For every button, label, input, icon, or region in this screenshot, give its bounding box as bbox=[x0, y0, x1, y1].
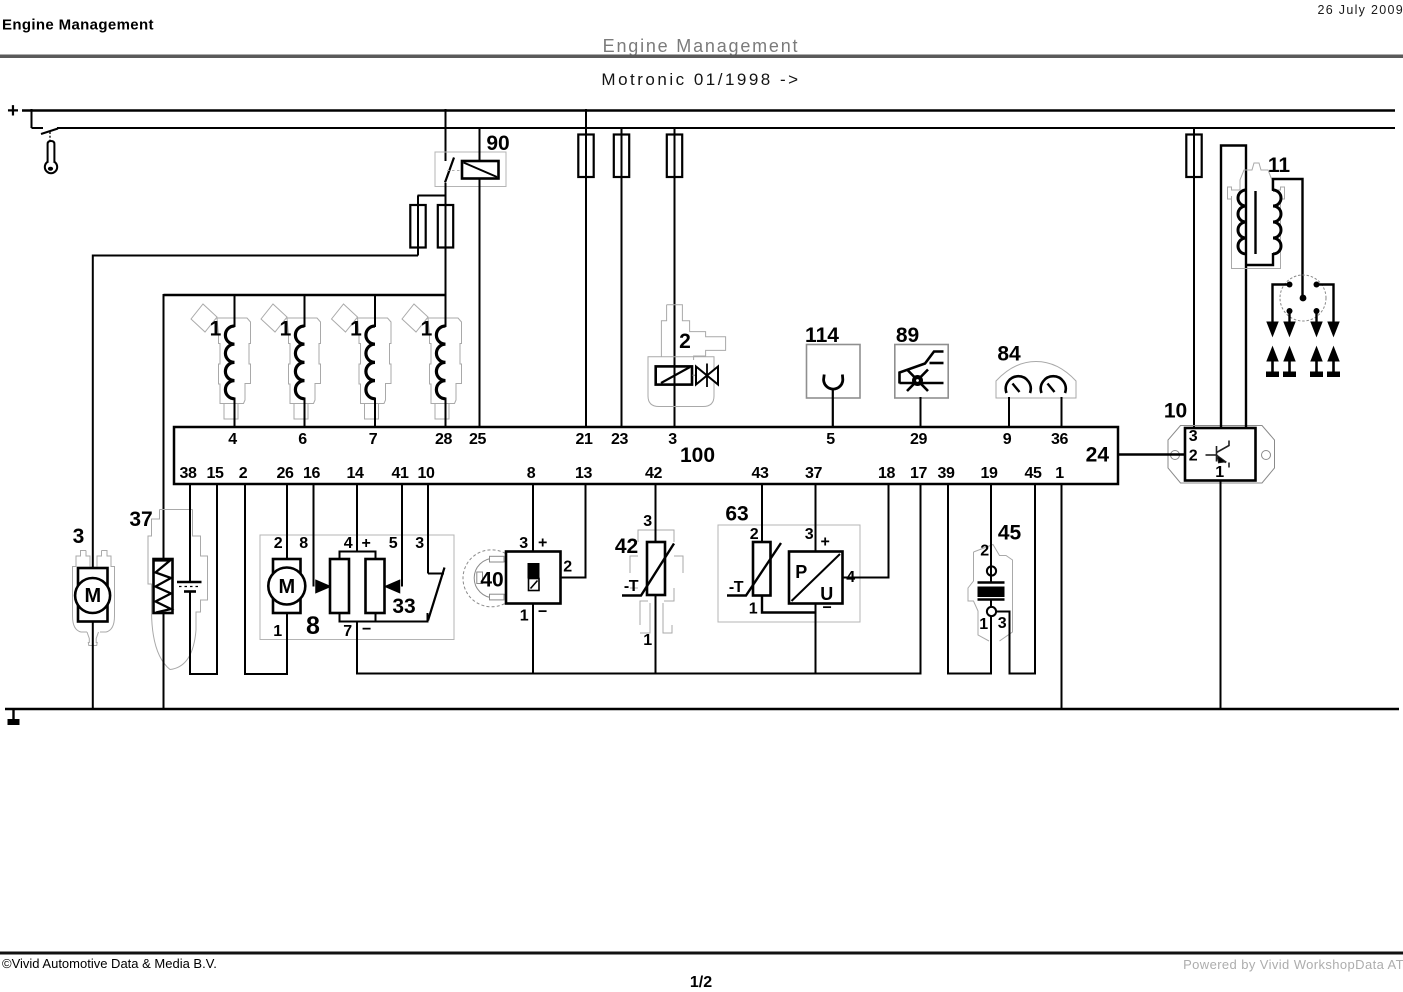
lambda sensor 37 body outline bbox=[148, 510, 208, 670]
svg-text:M: M bbox=[84, 585, 101, 607]
ignition module 10 transistor bbox=[1206, 441, 1230, 468]
crank sensor 40 box bbox=[506, 552, 561, 604]
svg-text:-T: -T bbox=[624, 578, 639, 595]
relay 90 link (dashed) bbox=[447, 170, 462, 172]
wire drop to ignition switch bbox=[31, 109, 33, 128]
sensor 63 P/U transducer bbox=[789, 552, 843, 604]
svg-text:63: 63 bbox=[725, 503, 748, 526]
wire ECU pin 42 to sensor 42 bbox=[655, 484, 657, 543]
wire +30 to fuse to ECU pin 21 bbox=[585, 109, 587, 427]
svg-text:1: 1 bbox=[210, 318, 222, 341]
svg-text:84: 84 bbox=[997, 343, 1021, 366]
svg-text:+: + bbox=[538, 535, 547, 552]
ignition coil 11 body outline bbox=[1228, 163, 1285, 269]
wire injector 2 to ECU bbox=[304, 398, 306, 428]
wire to fuel pump fuse bbox=[417, 196, 419, 256]
svg-text:8: 8 bbox=[306, 612, 320, 640]
wire sensor 40 to sensor-ground bus bbox=[532, 604, 534, 675]
wire 114 to ECU pin 5 bbox=[832, 389, 834, 428]
svg-text:1: 1 bbox=[749, 601, 758, 618]
wire sensor 63 pin 4 to ECU pin 18 bbox=[843, 484, 889, 578]
svg-text:3: 3 bbox=[998, 615, 1007, 632]
wire track bottom bridge bbox=[340, 613, 428, 622]
wire +15 to fuse to ECU pin 23 bbox=[621, 127, 623, 427]
svg-text:6: 6 bbox=[298, 431, 307, 448]
wire sensor 40 pin 2 to ECU pin 13 bbox=[561, 484, 586, 578]
lambda sensor 37 cell (battery symbol) bbox=[177, 581, 202, 584]
svg-text:100: 100 bbox=[680, 444, 715, 467]
potentiometer track right bbox=[366, 559, 385, 613]
injector 1 (cyl 1) body outline bbox=[191, 304, 251, 419]
wire lambda cell to ECU pin 38 bbox=[189, 484, 191, 582]
wire bus +30 (battery) bbox=[22, 109, 1395, 112]
wire ECU pin 8 to sensor 40 bbox=[532, 484, 534, 552]
wire bus +15 (ignition switched) bbox=[57, 127, 1395, 129]
ground rail bbox=[5, 708, 1399, 711]
wire distributor to spark plug 2 bbox=[1288, 311, 1290, 323]
wire sensor-ground bus to ECU pin 17 bbox=[357, 484, 921, 674]
injector 1 (cyl 2) coil bbox=[295, 326, 304, 399]
wire module 10 to coil 11 primary bbox=[1221, 146, 1246, 429]
wire ECU pin 24 to module 10 pin 2 bbox=[1118, 453, 1185, 456]
svg-text:+: + bbox=[362, 535, 371, 552]
coil 11 primary winding bbox=[1238, 190, 1246, 254]
svg-text:28: 28 bbox=[435, 431, 452, 448]
svg-text:1: 1 bbox=[350, 318, 362, 341]
svg-text:3: 3 bbox=[805, 526, 814, 543]
wire distributor to spark plug 4 bbox=[1317, 285, 1334, 323]
air temp sensor 42 outline bbox=[630, 530, 683, 633]
svg-text:9: 9 bbox=[1003, 431, 1012, 448]
svg-text:89: 89 bbox=[896, 324, 919, 347]
svg-text:114: 114 bbox=[805, 324, 839, 347]
svg-text:1/2: 1/2 bbox=[690, 974, 712, 991]
coil 11 secondary winding bbox=[1273, 190, 1281, 254]
wire ECU pin 14 to track tops bbox=[356, 484, 358, 552]
wire ECU pin 26 to idle motor bbox=[286, 484, 288, 560]
svg-text:13: 13 bbox=[575, 465, 592, 482]
crank sensor 40 outline bbox=[463, 550, 520, 607]
component 89 car icon bbox=[900, 352, 944, 392]
sensor 63 NTC resistor bbox=[753, 542, 771, 596]
svg-text:45: 45 bbox=[1025, 465, 1042, 482]
relay 90 coil diagonal bbox=[464, 163, 498, 178]
wire relay 90 coil to ECU pin 25 bbox=[479, 127, 481, 427]
wire relay output bbox=[445, 183, 447, 196]
wire suppressor 45 pin 3 to ECU pin 45 bbox=[996, 484, 1035, 674]
svg-text:3: 3 bbox=[415, 535, 424, 552]
svg-text:P: P bbox=[795, 562, 807, 582]
fuse F (pin 3) bbox=[667, 135, 682, 178]
component 89 box bbox=[895, 345, 948, 399]
ignition module 10 flange outline bbox=[1168, 426, 1275, 484]
svg-text:38: 38 bbox=[180, 465, 197, 482]
wire tracks to sensor-ground bus bbox=[356, 622, 358, 675]
header rule bbox=[0, 55, 1403, 59]
fuse (injector rail) bbox=[438, 205, 453, 248]
svg-text:Motronic 01/1998 ->: Motronic 01/1998 -> bbox=[601, 70, 800, 89]
svg-text:42: 42 bbox=[615, 535, 638, 558]
lambda heater zigzag bbox=[155, 561, 172, 613]
svg-text:4: 4 bbox=[228, 431, 237, 448]
svg-text:4: 4 bbox=[344, 535, 353, 552]
ECU 100 box bbox=[174, 427, 1118, 484]
svg-text:3: 3 bbox=[643, 513, 652, 530]
purge valve 2 body outline bbox=[648, 305, 726, 407]
svg-text:1: 1 bbox=[979, 616, 988, 633]
injector 1 (cyl 3) body outline bbox=[332, 304, 392, 419]
fuse F (pin 23) bbox=[614, 135, 629, 178]
suppressor 45 outline bbox=[968, 545, 1013, 642]
wire sensor 63 to sensor-ground bus bbox=[815, 604, 817, 675]
injector 1 (cyl 1) coil bbox=[225, 326, 234, 399]
wire rail to injector 3 bbox=[374, 294, 376, 327]
svg-text:Engine Management: Engine Management bbox=[2, 17, 154, 34]
svg-text:1: 1 bbox=[421, 318, 433, 341]
svg-text:3: 3 bbox=[1189, 428, 1198, 445]
wire fuel pump 3 to ground bbox=[92, 622, 94, 711]
svg-text:17: 17 bbox=[910, 465, 927, 482]
wire +30 to relay 90 switch bbox=[445, 109, 447, 161]
svg-text:3: 3 bbox=[73, 525, 85, 548]
wire lambda cell return to ECU pin 15 bbox=[190, 484, 217, 674]
wire ECU pin 10 to throttle switch bbox=[427, 484, 429, 574]
svg-text:16: 16 bbox=[303, 465, 320, 482]
svg-text:14: 14 bbox=[347, 465, 364, 482]
svg-text:8: 8 bbox=[527, 465, 536, 482]
svg-text:1: 1 bbox=[280, 318, 292, 341]
sensor 42 NTC resistor bbox=[647, 542, 665, 595]
wire suppressor 45 pin 1 to ECU pin 39 bbox=[948, 484, 991, 674]
spark gap at x=1272.5 bbox=[1267, 322, 1278, 336]
relay 90 coil bbox=[462, 161, 499, 179]
ground symbol bbox=[12, 709, 14, 719]
wire injector 3 to ECU bbox=[374, 398, 376, 428]
throttle switch blade bbox=[428, 568, 445, 621]
svg-text:2: 2 bbox=[1189, 448, 1198, 465]
svg-text:40: 40 bbox=[480, 569, 503, 592]
svg-text:-T: -T bbox=[729, 579, 744, 596]
potentiometer track left bbox=[330, 559, 349, 613]
svg-text:18: 18 bbox=[878, 465, 895, 482]
svg-text:25: 25 bbox=[469, 431, 486, 448]
instrument cluster 84 left gauge bbox=[1006, 376, 1031, 393]
svg-text:Powered by Vivid WorkshopData: Powered by Vivid WorkshopData ATI bbox=[1183, 957, 1403, 972]
svg-text:11: 11 bbox=[1268, 154, 1291, 177]
wire ECU pin 43 to sensor 63 NTC bbox=[761, 484, 763, 543]
svg-text:23: 23 bbox=[611, 431, 628, 448]
svg-text:3: 3 bbox=[668, 431, 677, 448]
svg-text:2: 2 bbox=[239, 465, 248, 482]
ignition key link (dashed) bbox=[49, 132, 51, 142]
svg-text:+: + bbox=[821, 534, 830, 551]
svg-text:1: 1 bbox=[643, 632, 652, 649]
wiper arrow left potentiometer bbox=[316, 581, 330, 593]
MAP sensor 63 outline box bbox=[718, 525, 860, 622]
injector 1 (cyl 2) body outline bbox=[261, 304, 321, 419]
wire ECU pin 19 to suppressor 45 bbox=[990, 484, 992, 567]
spark gap at x=1333.5 bbox=[1328, 322, 1339, 336]
instrument cluster 84 body outline bbox=[996, 362, 1076, 399]
wire track top bridge bbox=[340, 552, 376, 560]
component 114 symbol bbox=[824, 375, 843, 390]
instrument cluster 84 right gauge bbox=[1041, 376, 1066, 393]
suppressor 45 capacitor bbox=[978, 581, 1005, 584]
svg-text:1: 1 bbox=[520, 608, 529, 625]
fuel pump 3 motor bbox=[75, 578, 110, 613]
wire injector 1 to ECU bbox=[234, 398, 236, 428]
wire coil 11 secondary to distributor bbox=[1273, 179, 1303, 296]
wire module 10 pin 1 to ground rail bbox=[1220, 481, 1222, 711]
svg-text:24: 24 bbox=[1086, 444, 1110, 467]
wire rail to injector 1 bbox=[234, 294, 236, 327]
spark gap at x=1289.5 bbox=[1284, 322, 1295, 336]
svg-text:33: 33 bbox=[392, 595, 415, 618]
svg-text:Engine Management: Engine Management bbox=[603, 36, 800, 56]
svg-text:43: 43 bbox=[752, 465, 769, 482]
wire to injector-rail fuse bbox=[445, 196, 447, 297]
svg-text:2: 2 bbox=[274, 535, 283, 552]
wire injector 4 to ECU bbox=[445, 398, 447, 428]
crank sensor 40 element bbox=[528, 563, 540, 579]
svg-text:2: 2 bbox=[980, 543, 989, 560]
injector 1 (cyl 3) coil bbox=[366, 326, 375, 399]
svg-text:10: 10 bbox=[1164, 400, 1187, 423]
svg-text:41: 41 bbox=[392, 465, 409, 482]
wire rail to lambda heater 37 bbox=[163, 294, 165, 559]
wire distributor to spark plug 1 bbox=[1273, 285, 1290, 323]
wire rail to injector 2 bbox=[304, 294, 306, 327]
injector 1 (cyl 4) coil bbox=[436, 326, 445, 399]
ignition module 10 box bbox=[1185, 428, 1256, 481]
wire 89 to ECU pin 29 bbox=[920, 397, 922, 427]
footer rule bbox=[0, 952, 1403, 955]
component 114 box bbox=[807, 345, 861, 399]
throttle switch contact bbox=[428, 573, 444, 575]
wire fuse to fuel pump 3 bbox=[93, 255, 418, 257]
wire 84 to ECU pin 9 bbox=[1008, 397, 1010, 427]
svg-text:5: 5 bbox=[389, 535, 398, 552]
svg-text:21: 21 bbox=[576, 431, 593, 448]
idle motor M bbox=[268, 568, 305, 605]
purge valve 2 solenoid bbox=[656, 366, 692, 384]
idle motor housing bbox=[273, 559, 301, 613]
svg-text:2: 2 bbox=[563, 559, 572, 576]
svg-text:1: 1 bbox=[1215, 464, 1224, 481]
coil 11 core bbox=[1254, 191, 1256, 254]
distributor rotor circle bbox=[1280, 275, 1326, 321]
wire ignition switch feed bbox=[32, 127, 44, 129]
svg-text:M: M bbox=[278, 576, 295, 598]
sensor 63 P/U diagonal bbox=[792, 554, 841, 601]
wire idle motor to ECU pin 2 bbox=[245, 484, 287, 674]
relay 90 switch blade bbox=[445, 158, 454, 183]
wire injector supply rail bbox=[164, 294, 446, 296]
idle actuator 8 outline box bbox=[260, 535, 454, 640]
spark gap at x=1316.5 bbox=[1311, 322, 1322, 336]
svg-text:©Vivid Automotive Data & Media: ©Vivid Automotive Data & Media B.V. bbox=[2, 956, 217, 971]
purge valve 2 valve seat bbox=[693, 374, 696, 376]
wire ECU pin 16 to wiper bbox=[313, 484, 315, 587]
fuse (fuel pump) bbox=[410, 205, 425, 248]
wire ECU pin 37 to sensor 63 P/U bbox=[815, 484, 817, 552]
lambda sensor 37 heater resistor bbox=[154, 559, 173, 613]
svg-text:36: 36 bbox=[1051, 431, 1068, 448]
wire 84 to ECU pin 36 bbox=[1061, 397, 1063, 427]
svg-text:8: 8 bbox=[299, 535, 308, 552]
svg-text:−: − bbox=[362, 621, 371, 638]
wire lambda heater to ground bbox=[163, 612, 165, 710]
svg-text:37: 37 bbox=[805, 465, 822, 482]
injector 1 (cyl 4) body outline bbox=[402, 304, 462, 419]
wire sensor 42 to sensor-ground bus bbox=[655, 595, 657, 675]
ignition key symbol bbox=[45, 141, 57, 173]
wire distributor to spark plug 3 bbox=[1315, 311, 1317, 323]
svg-text:5: 5 bbox=[826, 431, 835, 448]
wire rail to injector 4 bbox=[445, 294, 447, 327]
sensor 42 NTC arrow bbox=[622, 544, 674, 596]
svg-text:15: 15 bbox=[207, 465, 224, 482]
svg-text:39: 39 bbox=[938, 465, 955, 482]
suppressor 45 bottom connector circle bbox=[987, 607, 996, 616]
ignition switch blade bbox=[41, 129, 58, 135]
purge valve 2 solenoid diagonal bbox=[661, 367, 690, 383]
svg-text:7: 7 bbox=[343, 623, 352, 640]
wiper arrow right potentiometer bbox=[386, 581, 400, 593]
svg-text:29: 29 bbox=[910, 431, 927, 448]
svg-text:26 July 2009: 26 July 2009 bbox=[1318, 3, 1403, 17]
wire +15 to fuse to ignition module 10 pin 3 bbox=[1193, 127, 1195, 429]
svg-text:U: U bbox=[820, 584, 833, 604]
svg-text:1: 1 bbox=[273, 623, 282, 640]
svg-text:7: 7 bbox=[369, 431, 378, 448]
svg-text:−: − bbox=[538, 604, 547, 621]
fuel pump 3 body outline bbox=[73, 551, 115, 646]
relay 90 outline box bbox=[435, 152, 506, 187]
fuel pump 3 housing bbox=[78, 568, 108, 622]
svg-text:3: 3 bbox=[519, 535, 528, 552]
wire ECU pin 41 to wiper bbox=[401, 484, 403, 587]
wire coil 11 common bottom bbox=[1246, 253, 1273, 265]
wire sensor 63 NTC to minus bbox=[762, 596, 816, 613]
svg-text:+: + bbox=[7, 100, 19, 122]
svg-text:19: 19 bbox=[981, 465, 998, 482]
svg-text:10: 10 bbox=[418, 465, 435, 482]
wire down to fuel pump 3 bbox=[92, 255, 94, 570]
svg-text:42: 42 bbox=[645, 465, 662, 482]
sensor 63 NTC arrow bbox=[727, 543, 781, 596]
fuse F (module 10) bbox=[1186, 135, 1201, 178]
suppressor 45 top connector circle bbox=[987, 566, 996, 575]
svg-text:2: 2 bbox=[679, 330, 691, 353]
wire relay output split bbox=[418, 195, 447, 197]
svg-text:26: 26 bbox=[277, 465, 294, 482]
svg-text:1: 1 bbox=[1055, 465, 1064, 482]
svg-text:2: 2 bbox=[750, 526, 759, 543]
svg-text:45: 45 bbox=[998, 522, 1022, 545]
wire +15 to fuse to purge valve 2 and ECU pin 3 bbox=[674, 127, 676, 427]
fuse F (pin 21) bbox=[578, 135, 593, 178]
wire ECU pin 1 to ground rail bbox=[1061, 484, 1063, 710]
svg-text:37: 37 bbox=[129, 508, 152, 531]
